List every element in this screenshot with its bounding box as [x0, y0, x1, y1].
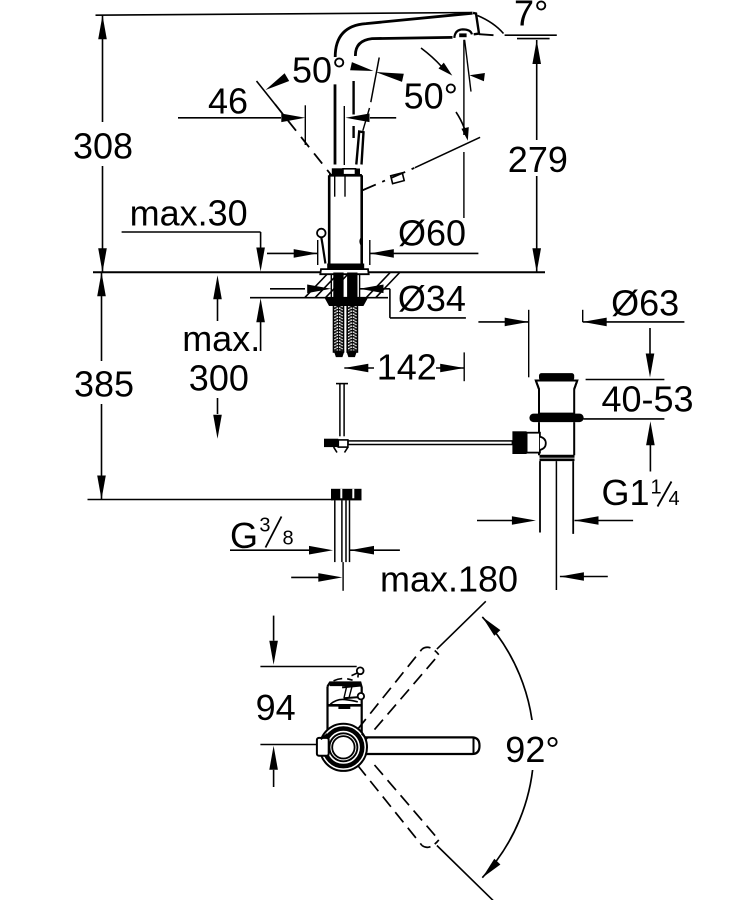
mounting nut	[326, 298, 368, 305]
dashed spout position lower	[358, 765, 422, 845]
7 degree leader arc	[478, 16, 504, 34]
collar white middle	[343, 169, 356, 175]
drain side port	[512, 431, 526, 454]
svg-text:Ø34: Ø34	[398, 278, 466, 319]
svg-text:94: 94	[256, 687, 296, 728]
right 50 deg arc arrow onto vertical line	[421, 48, 442, 67]
right 50 deg bowtie arrows on lever axis	[350, 62, 373, 71]
right 50 deg opposite arrowhead	[470, 73, 485, 81]
dimension G 3/8 arrows	[230, 549, 309, 551]
svg-text:308: 308	[73, 126, 133, 167]
7 degree reference lines	[505, 34, 557, 36]
svg-text:385: 385	[74, 364, 134, 405]
plan body mid line	[328, 704, 362, 707]
faucet base black ring	[327, 264, 364, 270]
spout tip right edge	[473, 13, 479, 34]
385 bottom reference line	[88, 499, 334, 501]
label 92 degrees	[500, 720, 570, 770]
hatch boundary ticks at hole edges	[330, 273, 332, 298]
svg-text:4: 4	[669, 488, 680, 510]
pop-up linkage horizontal bar	[348, 441, 512, 445]
left 50 deg tilted lever axis line (dash-dot)	[257, 81, 275, 104]
hose end fittings	[335, 352, 344, 357]
plan view: dimension 94 upper arrow	[273, 616, 275, 641]
dimension G1 1/4 arrows	[477, 520, 512, 522]
body to circle transitions	[321, 734, 367, 740]
max.30 lower arrow pointing up to counter underside	[256, 298, 265, 322]
svg-text:40-53: 40-53	[602, 379, 694, 420]
92 degree arc with arrows	[482, 617, 534, 878]
plan swivel inner rings	[329, 733, 357, 761]
plan body top thick line	[330, 683, 361, 686]
dimension 385 vertical line with arrows	[101, 272, 103, 361]
dimension diameter 34 leader	[270, 288, 305, 290]
dimension max.300 vertical line with arrows	[213, 275, 222, 299]
aerator inner square	[459, 33, 466, 37]
svg-text:142: 142	[377, 347, 437, 388]
spout neck left line	[334, 84, 337, 164]
faucet body outline	[329, 175, 362, 263]
aerator dome	[454, 29, 472, 38]
collar black left part	[332, 168, 343, 174]
svg-text:300: 300	[189, 358, 249, 399]
7 degree tilted outlet axis	[465, 40, 471, 92]
svg-text:50°: 50°	[404, 76, 458, 117]
plan spout bar	[356, 739, 472, 753]
svg-text:46: 46	[208, 80, 248, 121]
countertop top line	[93, 271, 545, 273]
plan swivel outer circle	[320, 724, 367, 771]
drain body	[539, 422, 574, 455]
dimension diameter 63	[478, 321, 528, 323]
right 50 deg lever axis extension line	[371, 58, 379, 103]
dimension 142	[344, 364, 368, 373]
svg-text:Ø63: Ø63	[611, 283, 679, 324]
dimension 279 vertical line with arrows	[536, 40, 538, 140]
mounting studs through counter	[333, 273, 343, 298]
dimension 40-53	[649, 328, 651, 354]
countertop hatching	[305, 273, 329, 298]
plan swivel thick ring	[325, 729, 363, 767]
collar black right bit	[356, 169, 361, 175]
46 left extension line	[304, 105, 306, 145]
drain flange	[536, 381, 578, 414]
lever axis thin line	[363, 108, 370, 131]
plan body outline	[328, 683, 362, 737]
dimension diameter 60	[267, 252, 318, 254]
pop-up rod knob	[317, 229, 326, 238]
faucet axis extension below pipes	[342, 562, 344, 591]
linkage clamp	[324, 439, 338, 447]
outlet vertical reference line	[463, 40, 465, 135]
pop-up rod lower	[336, 383, 348, 385]
svg-text:Ø60: Ø60	[398, 213, 466, 254]
spout inner (bottom) curve	[355, 37, 452, 56]
svg-text:3: 3	[259, 515, 270, 537]
cartridge inner lines	[334, 175, 336, 196]
dimension 308 top reference line	[96, 13, 473, 16]
faucet body small arc detail	[359, 239, 362, 245]
pipes below connector	[334, 500, 336, 562]
dimension max.180	[291, 576, 318, 578]
dashed spout position upper	[358, 649, 422, 729]
svg-text:max.30: max.30	[130, 193, 248, 234]
dashed lever end cap (tilted position)	[391, 173, 405, 184]
plan dome silhouette arc	[330, 699, 358, 704]
spout neck right line	[352, 81, 354, 115]
tilted lever axis dash-dot line right	[362, 168, 415, 191]
plan black band below mid	[338, 706, 350, 709]
svg-text:7°: 7°	[514, 0, 548, 34]
drain bottom nut	[540, 455, 575, 458]
svg-text:G1: G1	[602, 472, 650, 513]
braided hoses	[334, 305, 344, 352]
46 dim right extension line	[343, 106, 345, 165]
drain tailpipe	[539, 461, 541, 532]
dimension 308 vertical line with arrows	[102, 15, 104, 122]
left 50 deg leader arrow	[266, 73, 290, 90]
spout outline top curve and arm	[335, 13, 472, 57]
plan left tab	[317, 738, 329, 756]
svg-text:279: 279	[508, 139, 568, 180]
countertop bottom line (left extension)	[250, 297, 388, 299]
svg-text:1: 1	[651, 477, 662, 499]
svg-text:50°: 50°	[292, 50, 346, 91]
dimension 46	[178, 117, 281, 119]
joystick lever tilted	[356, 132, 363, 165]
connector black blocks	[331, 489, 362, 501]
svg-text:max.180: max.180	[380, 559, 518, 600]
drain plug top	[539, 373, 574, 380]
faucet base flare	[320, 269, 368, 274]
svg-text:max.: max.	[182, 318, 260, 359]
94 upper reference line	[260, 666, 356, 668]
svg-text:92°: 92°	[505, 729, 559, 770]
pop-up rod end circle in plan	[357, 667, 364, 674]
plan lever bar	[342, 686, 362, 699]
swing extension lines	[437, 601, 486, 649]
94 lower reference line	[260, 744, 316, 746]
plan body dashed dome arc	[334, 679, 353, 681]
right 50 deg leader to lever line	[456, 112, 467, 138]
svg-text:8: 8	[283, 527, 294, 549]
drain O-ring	[529, 414, 583, 423]
